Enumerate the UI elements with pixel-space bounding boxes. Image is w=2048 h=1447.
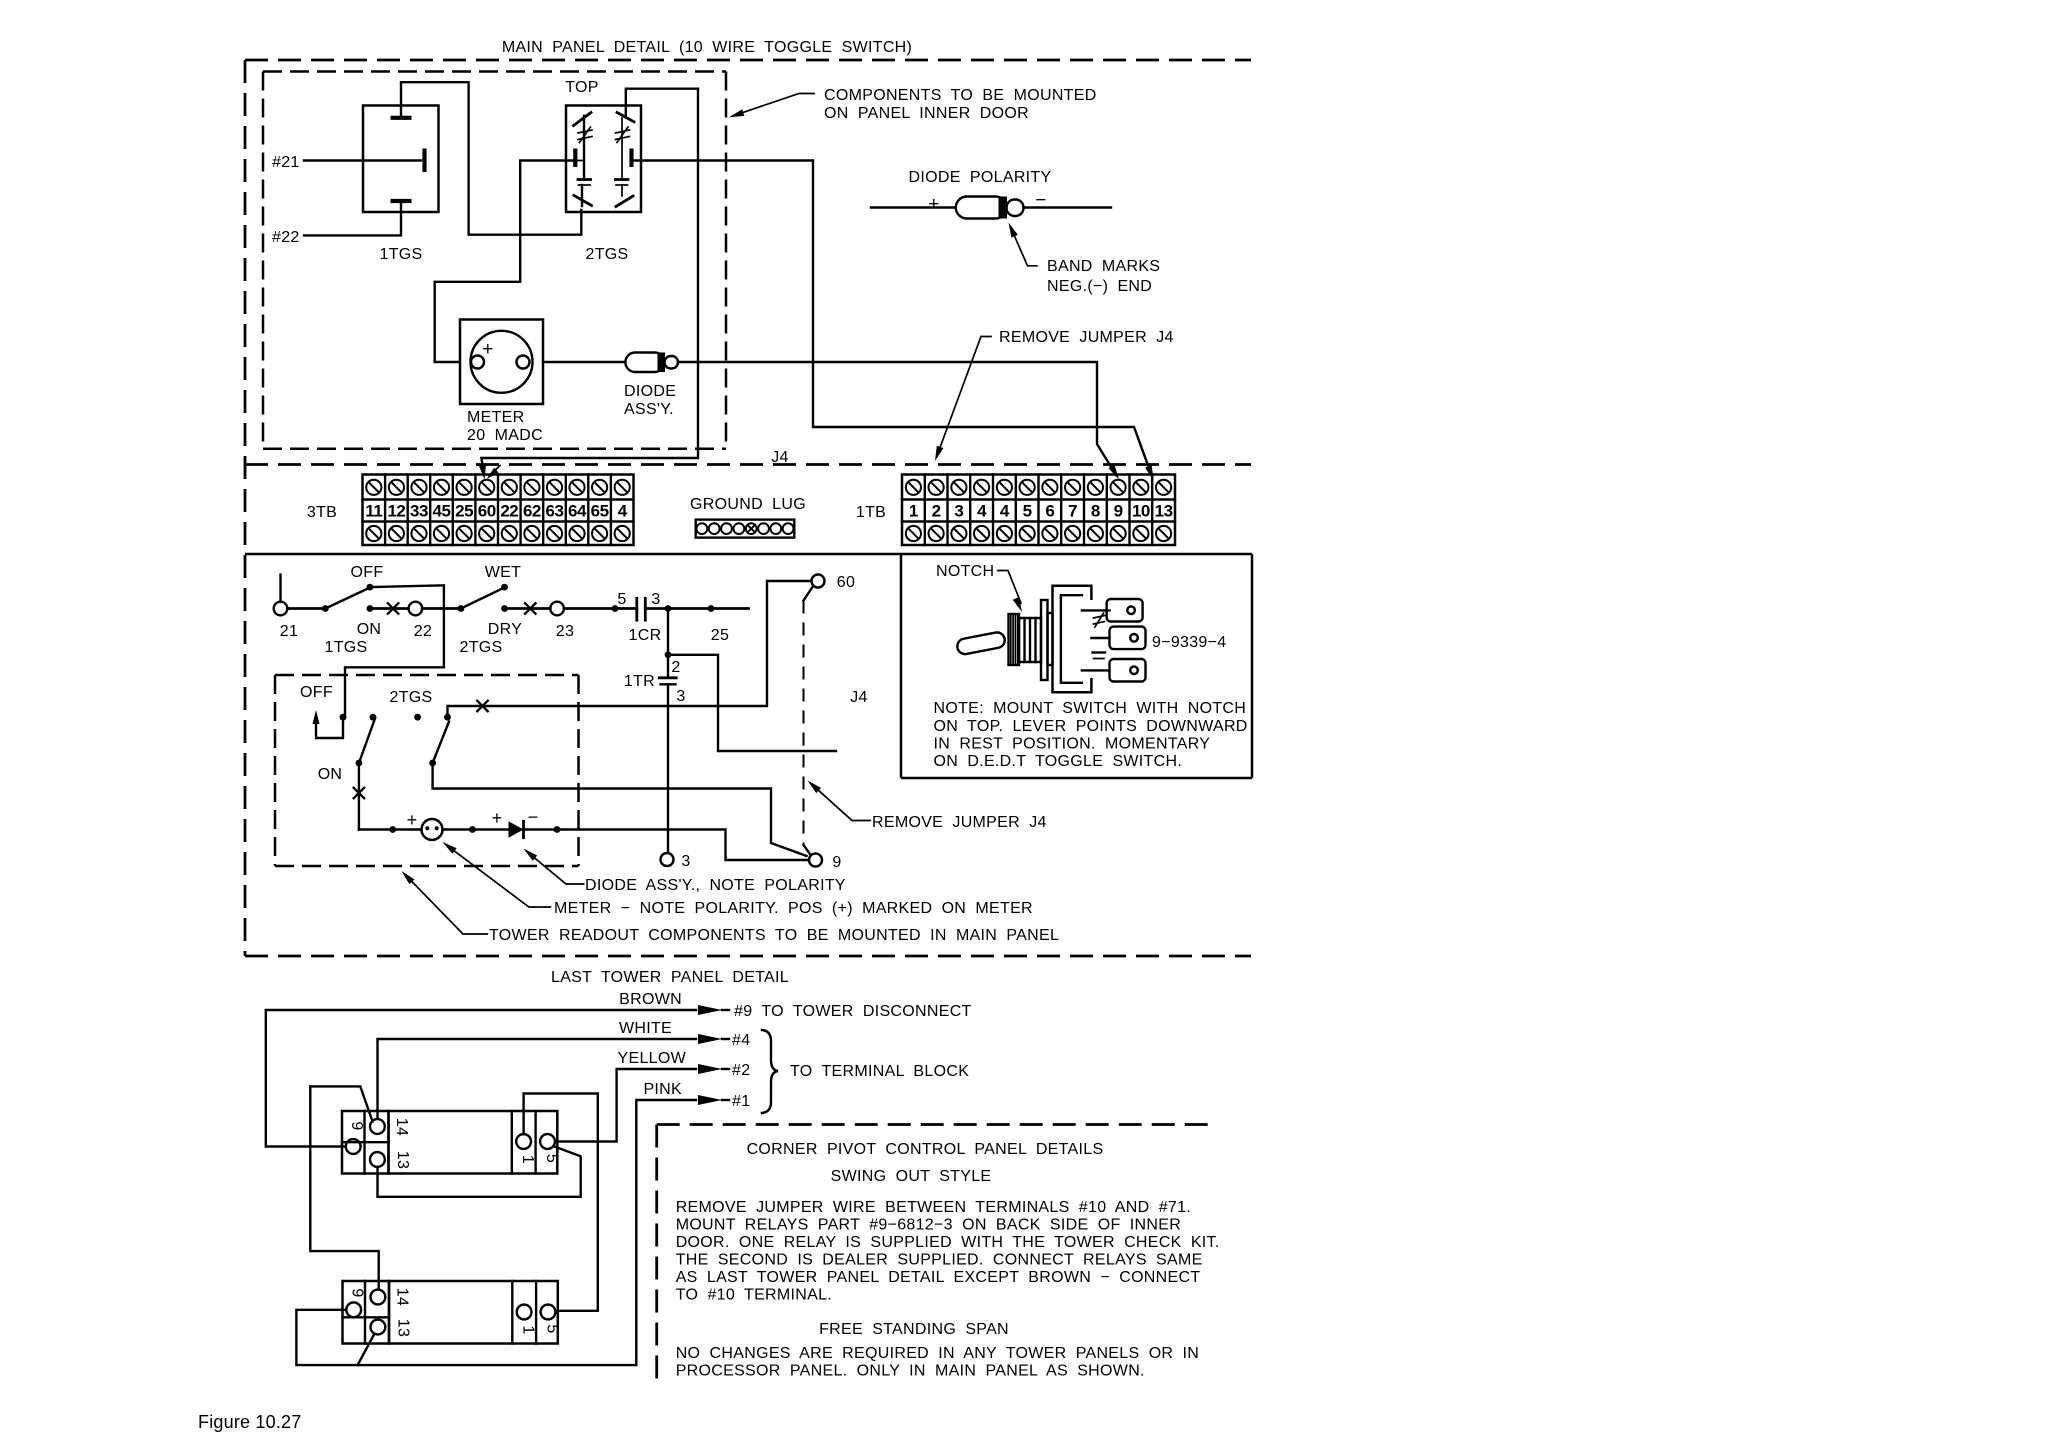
svg-text:ON D.E.D.T TOGGLE SWITCH.: ON D.E.D.T TOGGLE SWITCH. bbox=[934, 753, 1183, 770]
toggle switch 2TGS bbox=[565, 79, 641, 263]
svg-text:1TGS: 1TGS bbox=[325, 639, 368, 656]
callout: tower readout components bbox=[402, 871, 1060, 944]
toggle switch mounting detail box bbox=[901, 554, 1252, 778]
callout: remove jumper J4 (middle) bbox=[808, 781, 1047, 832]
callout: components mounted on panel inner door bbox=[729, 87, 1097, 122]
svg-text:1TB: 1TB bbox=[856, 504, 886, 521]
svg-text:MAIN PANEL DETAIL (10 WIRE TOG: MAIN PANEL DETAIL (10 WIRE TOGGLE SWITCH… bbox=[502, 39, 912, 56]
relay K2 (dealer supplied) bbox=[343, 1281, 561, 1344]
svg-text:MOUNT RELAYS PART #9−6812−3 ON: MOUNT RELAYS PART #9−6812−3 ON BACK SIDE… bbox=[676, 1217, 1181, 1234]
svg-text:#21: #21 bbox=[272, 154, 300, 171]
svg-text:9: 9 bbox=[349, 1288, 366, 1297]
wire pole2 pivot to node 9 bbox=[433, 763, 807, 856]
svg-text:20 MADC: 20 MADC bbox=[467, 427, 543, 444]
wire DRY to node 23 bbox=[505, 607, 551, 610]
relay K1 (last tower panel) bbox=[342, 1111, 560, 1174]
svg-text:CORNER PIVOT CONTROL PANEL DET: CORNER PIVOT CONTROL PANEL DETAILS bbox=[747, 1141, 1104, 1158]
wire 1TGS top to 2TGS bottom-left bbox=[401, 82, 581, 235]
svg-text:ON TOP. LEVER POINTS DOWNWARD: ON TOP. LEVER POINTS DOWNWARD bbox=[934, 718, 1248, 735]
wire ON to node 22 bbox=[370, 607, 409, 610]
wire relay K2 jumper 9/13 to pink bus bbox=[358, 1335, 374, 1366]
OFF position arrow (lower 2TGS) bbox=[300, 684, 432, 783]
callout: remove jumper J4 (top) bbox=[935, 329, 1174, 461]
svg-text:5: 5 bbox=[1023, 502, 1032, 521]
svg-text:23: 23 bbox=[556, 623, 574, 640]
svg-text:LAST TOWER PANEL DETAIL: LAST TOWER PANEL DETAIL bbox=[551, 969, 789, 986]
svg-text:THE SECOND IS DEALER SUPPLIED.: THE SECOND IS DEALER SUPPLIED. CONNECT R… bbox=[676, 1252, 1203, 1269]
timer contact 1TR bbox=[624, 659, 686, 705]
node 3 bbox=[661, 853, 674, 866]
switch 2TGS (schematic) blade bbox=[461, 588, 505, 609]
callout: meter note polarity bbox=[443, 842, 1033, 917]
terminal block 1TB bbox=[902, 475, 1175, 546]
switch 1TGS (schematic) blade bbox=[325, 588, 370, 609]
svg-text:1TR: 1TR bbox=[624, 673, 655, 690]
svg-text:IN REST POSITION. MOMENTARY: IN REST POSITION. MOMENTARY bbox=[934, 736, 1211, 753]
svg-text:9: 9 bbox=[348, 1121, 365, 1130]
svg-text:AS LAST TOWER PANEL DETAIL EXC: AS LAST TOWER PANEL DETAIL EXCEPT BROWN … bbox=[676, 1269, 1201, 1286]
svg-text:10: 10 bbox=[1132, 502, 1150, 521]
svg-text:21: 21 bbox=[280, 623, 298, 640]
svg-text:4: 4 bbox=[1000, 502, 1010, 521]
svg-text:4: 4 bbox=[618, 502, 628, 521]
callout: band marks neg end bbox=[1009, 223, 1161, 296]
jumper J4 arrow into 3TB terminal 60 bbox=[490, 466, 501, 476]
callout: diode assy note polarity bbox=[524, 849, 846, 895]
brace to terminal block bbox=[762, 1030, 969, 1113]
svg-text:+: + bbox=[482, 339, 493, 360]
svg-text:REMOVE JUMPER J4: REMOVE JUMPER J4 bbox=[999, 329, 1174, 346]
wire 1TR down to node 3 bbox=[667, 684, 669, 853]
lower toggle switch 2TGS pole 1 bbox=[340, 714, 377, 830]
wire rail 21 to 1TGS switch bbox=[287, 607, 325, 610]
svg-text:Figure 10.27: Figure 10.27 bbox=[198, 1412, 301, 1432]
svg-text:+: + bbox=[928, 194, 939, 215]
svg-text:4: 4 bbox=[977, 502, 987, 521]
svg-text:WET: WET bbox=[485, 564, 521, 581]
svg-text:9: 9 bbox=[1114, 502, 1123, 521]
svg-text:YELLOW: YELLOW bbox=[618, 1050, 687, 1067]
svg-text:13: 13 bbox=[394, 1151, 411, 1169]
svg-text:2: 2 bbox=[932, 502, 941, 521]
svg-text:3: 3 bbox=[651, 591, 660, 608]
J4 jumper dashed line between terminal strips bbox=[245, 463, 1251, 466]
svg-text:9−9339−4: 9−9339−4 bbox=[1152, 634, 1226, 651]
svg-text:8: 8 bbox=[1091, 502, 1100, 521]
svg-text:2TGS: 2TGS bbox=[390, 689, 433, 706]
svg-text:METER − NOTE POLARITY. POS (+): METER − NOTE POLARITY. POS (+) MARKED ON… bbox=[554, 900, 1033, 917]
svg-text:2TGS: 2TGS bbox=[586, 246, 629, 263]
meter rail wire to node 9 bbox=[359, 828, 421, 830]
svg-text:1: 1 bbox=[520, 1325, 537, 1334]
svg-text:63: 63 bbox=[546, 502, 564, 521]
svg-text:12: 12 bbox=[387, 502, 405, 521]
svg-text:FREE STANDING SPAN: FREE STANDING SPAN bbox=[819, 1321, 1009, 1338]
terminal block 3TB bbox=[363, 475, 634, 546]
svg-text:METER: METER bbox=[467, 409, 525, 426]
svg-text:5: 5 bbox=[543, 1154, 560, 1163]
svg-text:NEG.(−) END: NEG.(−) END bbox=[1047, 278, 1152, 295]
wire PINK common bus bbox=[296, 1081, 750, 1365]
wire #22 to 1TGS bottom bbox=[304, 203, 401, 235]
svg-text:33: 33 bbox=[410, 502, 428, 521]
svg-text:ON: ON bbox=[318, 766, 343, 783]
svg-text:14: 14 bbox=[393, 1118, 410, 1136]
wire relay K1 contact 13 to contact 5 bbox=[378, 1147, 581, 1197]
wire jumper branch to J4 (crosses dashed line) bbox=[668, 655, 836, 751]
main panel outer dashed border bbox=[245, 60, 1251, 956]
wire #21 to 1TGS bbox=[304, 159, 421, 161]
node 22 bbox=[409, 602, 423, 616]
inner door dashed box bbox=[263, 72, 726, 449]
contact 1CR bbox=[617, 591, 661, 644]
svg-text:14: 14 bbox=[394, 1288, 411, 1306]
note text bbox=[934, 700, 1248, 770]
svg-text:TO #10 TERMINAL.: TO #10 TERMINAL. bbox=[676, 1287, 832, 1304]
wire lower 2TGS to node 60 bbox=[449, 581, 812, 706]
svg-text:OFF: OFF bbox=[351, 564, 384, 581]
node 23 bbox=[550, 602, 564, 616]
svg-text:PROCESSOR PANEL. ONLY IN MAIN: PROCESSOR PANEL. ONLY IN MAIN PANEL AS S… bbox=[676, 1363, 1145, 1380]
node 60 bbox=[812, 575, 825, 588]
lower toggle switch 2TGS pole 2 bbox=[414, 706, 451, 766]
wire relay K1 contact 1 to relay K2 contact 5 bbox=[524, 1094, 598, 1311]
svg-text:3: 3 bbox=[676, 688, 685, 705]
svg-text:DRY: DRY bbox=[488, 621, 522, 638]
svg-text:13: 13 bbox=[1155, 502, 1173, 521]
svg-text:#22: #22 bbox=[272, 229, 300, 246]
svg-text:1TGS: 1TGS bbox=[380, 246, 423, 263]
wire 2TGS left pole down to meter bbox=[435, 161, 576, 363]
svg-text:ASS'Y.: ASS'Y. bbox=[624, 401, 674, 418]
wire OFF contact to lower 2TGS box bbox=[345, 585, 444, 717]
meter (schematic) bbox=[389, 810, 475, 840]
svg-text:25: 25 bbox=[455, 502, 473, 521]
jumper J4 dashed wire 60 to 9 bbox=[804, 587, 813, 601]
svg-text:TO TERMINAL BLOCK: TO TERMINAL BLOCK bbox=[790, 1063, 969, 1080]
wire 23 to contact 1CR bbox=[564, 607, 637, 610]
svg-text:3TB: 3TB bbox=[307, 504, 337, 521]
callout NOTCH bbox=[936, 563, 1022, 612]
svg-text:3: 3 bbox=[681, 853, 690, 870]
node 21 bbox=[279, 575, 281, 602]
node 9 bbox=[809, 854, 822, 867]
diode assembly (top section) bbox=[624, 353, 678, 419]
svg-text:DIODE ASS'Y., NOTE POLARITY: DIODE ASS'Y., NOTE POLARITY bbox=[585, 877, 846, 894]
svg-text:60: 60 bbox=[478, 502, 496, 521]
svg-text:SWING OUT STYLE: SWING OUT STYLE bbox=[831, 1168, 992, 1185]
svg-text:1: 1 bbox=[909, 502, 918, 521]
svg-text:5: 5 bbox=[544, 1324, 561, 1333]
svg-text:NOTE: MOUNT SWITCH WITH NOTCH: NOTE: MOUNT SWITCH WITH NOTCH bbox=[934, 700, 1247, 717]
svg-text:11: 11 bbox=[365, 502, 382, 521]
svg-text:BAND MARKS: BAND MARKS bbox=[1047, 258, 1160, 275]
svg-text:+: + bbox=[492, 808, 503, 828]
svg-text:BROWN: BROWN bbox=[619, 991, 682, 1008]
svg-text:NO CHANGES ARE REQUIRED IN ANY: NO CHANGES ARE REQUIRED IN ANY TOWER PAN… bbox=[676, 1345, 1199, 1362]
svg-text:#4: #4 bbox=[732, 1032, 750, 1049]
svg-text:2: 2 bbox=[671, 659, 680, 676]
corner pivot control panel dashed box bbox=[657, 1125, 1215, 1379]
svg-text:1: 1 bbox=[519, 1155, 536, 1164]
svg-text:5: 5 bbox=[617, 591, 626, 608]
svg-text:62: 62 bbox=[523, 502, 541, 521]
meter 20 MADC bbox=[460, 320, 543, 445]
wire 22 to 2TGS switch bbox=[422, 607, 461, 610]
svg-text:9: 9 bbox=[832, 854, 841, 871]
svg-text:3: 3 bbox=[954, 502, 963, 521]
corner pivot text bbox=[676, 1141, 1220, 1380]
svg-text:#1: #1 bbox=[732, 1093, 750, 1110]
wire meter to diode bbox=[543, 361, 625, 363]
svg-text:6: 6 bbox=[1045, 502, 1054, 521]
diode (schematic), note polarity bbox=[492, 807, 561, 838]
svg-text:13: 13 bbox=[395, 1319, 412, 1337]
wire 2TGS top to 3TB terminal 60 bbox=[481, 89, 698, 474]
svg-text:NOTCH: NOTCH bbox=[936, 563, 994, 580]
wire down to timer 1TR bbox=[667, 609, 669, 676]
wire WHITE to #4 bbox=[378, 1020, 751, 1118]
svg-text:1CR: 1CR bbox=[629, 627, 662, 644]
svg-text:GROUND LUG: GROUND LUG bbox=[690, 496, 806, 513]
svg-text:OFF: OFF bbox=[300, 684, 333, 701]
svg-text:45: 45 bbox=[433, 502, 451, 521]
svg-text:64: 64 bbox=[568, 502, 587, 521]
svg-text:REMOVE JUMPER WIRE BETWEEN TER: REMOVE JUMPER WIRE BETWEEN TERMINALS #10… bbox=[676, 1199, 1191, 1216]
svg-text:60: 60 bbox=[837, 574, 855, 591]
svg-text:DIODE POLARITY: DIODE POLARITY bbox=[909, 169, 1052, 186]
svg-text:2TGS: 2TGS bbox=[460, 639, 503, 656]
svg-text:22: 22 bbox=[414, 623, 432, 640]
wire relay K1 coil 14 to K2 coil 14 bbox=[310, 1086, 372, 1121]
tower readout dashed box bbox=[275, 675, 579, 866]
toggle switch 1TGS bbox=[363, 106, 439, 264]
svg-text:DIODE: DIODE bbox=[624, 383, 676, 400]
svg-text:−: − bbox=[528, 807, 539, 827]
svg-text:25: 25 bbox=[711, 627, 729, 644]
wire 1CR to node 25 bbox=[645, 607, 748, 610]
svg-text:−: − bbox=[1035, 190, 1046, 211]
section separator line bbox=[245, 553, 1252, 556]
svg-text:22: 22 bbox=[500, 502, 518, 521]
svg-text:#9 TO TOWER DISCONNECT: #9 TO TOWER DISCONNECT bbox=[734, 1003, 972, 1020]
wire BROWN to #9 bbox=[266, 991, 972, 1147]
ground lug bbox=[690, 496, 806, 538]
svg-text:65: 65 bbox=[591, 502, 609, 521]
wire YELLOW to #2 bbox=[556, 1050, 751, 1142]
svg-text:ON: ON bbox=[357, 621, 382, 638]
wire 2TGS right pole to 1TB terminal 9 (remove jumper path) bbox=[634, 161, 1152, 476]
svg-text:REMOVE JUMPER J4: REMOVE JUMPER J4 bbox=[872, 814, 1047, 831]
svg-text:TOWER READOUT COMPONENTS TO BE: TOWER READOUT COMPONENTS TO BE MOUNTED I… bbox=[489, 927, 1059, 944]
svg-text:J4: J4 bbox=[771, 449, 789, 466]
svg-text:ON PANEL INNER DOOR: ON PANEL INNER DOOR bbox=[824, 105, 1029, 122]
toggle switch 9-9339-4 drawing bbox=[956, 586, 1226, 693]
svg-text:DOOR. ONE RELAY IS SUPPLIED WI: DOOR. ONE RELAY IS SUPPLIED WITH THE TOW… bbox=[676, 1234, 1220, 1251]
svg-text:J4: J4 bbox=[850, 689, 868, 706]
svg-text:COMPONENTS TO BE MOUNTED: COMPONENTS TO BE MOUNTED bbox=[824, 87, 1097, 104]
svg-text:#2: #2 bbox=[732, 1062, 750, 1079]
svg-text:PINK: PINK bbox=[643, 1081, 682, 1098]
svg-text:TOP: TOP bbox=[565, 79, 599, 96]
diode polarity detail bbox=[871, 169, 1111, 219]
svg-text:7: 7 bbox=[1068, 502, 1077, 521]
svg-text:WHITE: WHITE bbox=[619, 1020, 672, 1037]
wire diode to 1TB terminal 9 bbox=[678, 362, 1116, 475]
svg-text:+: + bbox=[407, 810, 418, 830]
